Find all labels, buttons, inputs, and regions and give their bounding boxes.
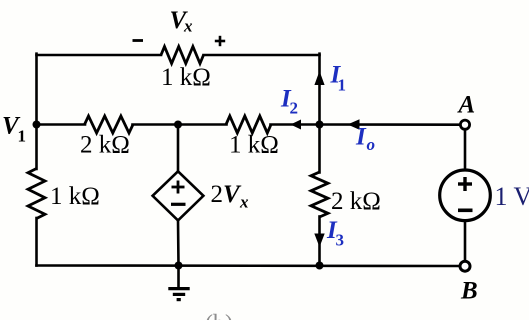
wire top rail right segment [204, 54, 320, 57]
wire bottom rail [37, 264, 461, 267]
wire source to terminal B [464, 221, 467, 261]
node right-mid dot [316, 121, 324, 129]
wire right-mid vertical upper [318, 54, 321, 173]
minus inside diamond [171, 203, 186, 206]
svg-text:o: o [367, 135, 376, 154]
wire left vertical upper [35, 54, 38, 169]
resistor 2 kOhm right vertical zigzag [311, 172, 328, 217]
svg-text:2 kΩ: 2 kΩ [331, 188, 381, 215]
minus inside circle [458, 209, 473, 213]
node bottom-right dot [316, 262, 324, 270]
svg-text:3: 3 [336, 231, 345, 250]
svg-text:2V: 2V [211, 181, 243, 208]
arrow I1 up [314, 71, 324, 85]
wire middle rail V1 to 2k [37, 123, 86, 126]
svg-text:1 kΩ: 1 kΩ [161, 64, 211, 91]
svg-text:x: x [183, 17, 193, 36]
wire center branch upper [177, 125, 180, 173]
plus inside circle [458, 177, 472, 191]
arrow I2 left [291, 120, 302, 130]
polarity plus of Vx [215, 36, 225, 46]
svg-text:1: 1 [18, 127, 27, 146]
wire node to terminal A [320, 123, 461, 126]
wire left vertical lower [35, 218, 38, 266]
svg-text:I: I [355, 124, 367, 151]
resistor 1 kOhm left vertical zigzag [28, 169, 45, 219]
arrow Io left [348, 119, 360, 129]
ground symbol [168, 266, 189, 300]
wire center branch lower [177, 220, 180, 266]
terminal A open circle [460, 120, 469, 129]
svg-text:x: x [239, 193, 249, 212]
wire right-mid vertical lower [318, 217, 321, 266]
resistor 2 kOhm middle zigzag [85, 116, 134, 133]
node V1 dot [33, 121, 41, 129]
svg-text:1 V: 1 V [495, 182, 529, 211]
terminal B open circle [460, 261, 470, 271]
arrow I3 down [314, 234, 324, 248]
svg-text:(b): (b) [205, 311, 233, 320]
wire top rail left segment [37, 54, 162, 57]
svg-text:1: 1 [338, 76, 347, 95]
svg-text:2: 2 [290, 99, 299, 118]
wire middle rail 2k to 1k [133, 123, 227, 126]
plus inside diamond [172, 181, 185, 194]
resistor R top 1 kOhm zigzag [161, 47, 204, 64]
resistor 1 kOhm middle zigzag [226, 116, 271, 133]
independent source 1V circle [440, 170, 491, 221]
svg-text:1 kΩ: 1 kΩ [50, 183, 100, 210]
wire terminal A to source [464, 130, 467, 170]
node ground dot [175, 262, 183, 270]
polarity minus of Vx [133, 39, 144, 42]
svg-text:1 kΩ: 1 kΩ [229, 132, 279, 159]
svg-text:A: A [457, 92, 476, 119]
svg-text:2 kΩ: 2 kΩ [80, 132, 130, 159]
node center-mid dot [174, 121, 182, 129]
wire middle rail 1k to node [271, 123, 320, 126]
dependent source diamond 2Vx [153, 171, 204, 220]
svg-text:B: B [460, 278, 478, 305]
